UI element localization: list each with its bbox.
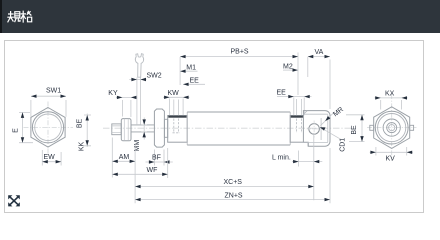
left view vertical centerline	[47, 102, 49, 155]
VA left extension line	[307, 57, 309, 77]
dimension KX	[375, 90, 408, 109]
dimension BE right	[346, 115, 365, 142]
expand icon	[10, 197, 18, 204]
rod wrench flat lines	[137, 78, 141, 125]
flange neck	[164, 119, 167, 137]
clevis top-left chamfer	[303, 111, 307, 115]
dimension AM	[112, 138, 135, 204]
label M1 with leader	[180, 65, 197, 73]
rear port hidden lines	[297, 119, 302, 134]
cylinder tube	[187, 112, 290, 145]
right hex outline	[374, 107, 410, 149]
dimension KW	[163, 90, 189, 99]
left view horizontal centerline	[24, 126, 74, 128]
svg-text:KV: KV	[386, 155, 396, 162]
head cap hatch band	[168, 116, 186, 118]
right pivot ear	[410, 125, 414, 130]
piston rod	[131, 125, 154, 132]
left pivot ear	[370, 125, 374, 130]
hex nut outline (left view)	[31, 108, 65, 148]
svg-text:EE: EE	[277, 90, 287, 97]
header left edge strip	[0, 0, 2, 33]
panel border box	[4, 40, 424, 213]
dimension KY	[108, 90, 137, 117]
dimension BE (left column)	[77, 114, 92, 148]
dimension BF	[146, 150, 173, 166]
piston rod thread stub	[112, 124, 121, 135]
right view vertical centerline	[391, 94, 393, 161]
rear port centre extension line	[297, 53, 299, 96]
header title 规格 (drawn strokes)	[7, 11, 31, 23]
svg-text:M2: M2	[283, 64, 293, 71]
label M2 with leader	[283, 64, 298, 72]
svg-text:BE: BE	[77, 119, 84, 129]
dimension WF	[112, 148, 167, 178]
head port hidden lines	[173, 119, 181, 134]
rod cover flange disc	[154, 109, 164, 147]
header bar	[0, 0, 440, 33]
dimension KV	[370, 147, 413, 162]
label MR with leader	[320, 106, 345, 126]
label CD1 with leader	[320, 127, 347, 152]
dimension SW2	[129, 73, 161, 82]
wrench icon	[135, 54, 143, 77]
svg-text:KW: KW	[168, 90, 180, 97]
svg-text:PB+S: PB+S	[231, 49, 249, 56]
rear cap hatch band	[291, 116, 303, 118]
dimension E	[13, 112, 34, 142]
dimension XC+S	[135, 179, 314, 188]
svg-text:ZN+S: ZN+S	[225, 192, 243, 199]
svg-text:KY: KY	[108, 90, 118, 97]
clevis bottom step	[307, 142, 309, 146]
rear port extension lines	[294, 98, 304, 116]
svg-text:EE: EE	[190, 78, 200, 85]
dimension SW1	[31, 88, 66, 117]
dimension VA	[308, 49, 330, 109]
concentric circles right view	[375, 111, 408, 144]
rear clevis block	[303, 111, 330, 147]
head cover cap	[168, 116, 188, 143]
outer circle (left view)	[32, 112, 63, 143]
svg-text:KK: KK	[79, 142, 86, 152]
svg-text:L min.: L min.	[272, 154, 291, 161]
PB left extension line	[179, 57, 181, 85]
inner circle thread (left view)	[35, 114, 62, 141]
svg-text:AM: AM	[119, 154, 130, 161]
main horizontal centerline	[103, 127, 352, 129]
svg-text:SW1: SW1	[46, 88, 61, 95]
clevis pivot hole	[309, 124, 320, 135]
svg-text:XC+S: XC+S	[224, 179, 243, 186]
dimension EW	[42, 150, 61, 166]
rod nut	[121, 119, 131, 141]
clevis pivot centerline	[307, 121, 322, 138]
dimension L min.	[272, 133, 322, 200]
rear cover cap	[290, 116, 303, 143]
nut facet lines	[124, 119, 128, 141]
svg-text:M1: M1	[186, 65, 196, 72]
svg-text:WF: WF	[147, 167, 158, 174]
dimension PB+S	[180, 49, 298, 59]
svg-text:SW2: SW2	[147, 73, 162, 80]
tube end verticals	[187, 112, 290, 145]
svg-text:BF: BF	[152, 155, 161, 162]
svg-text:VA: VA	[315, 49, 324, 56]
clevis fork inner line	[320, 118, 322, 140]
head port extension lines	[170, 99, 184, 116]
dimension ZN+S	[135, 148, 330, 203]
clevis chamfer ring lines	[303, 114, 327, 142]
svg-text:EW: EW	[44, 154, 56, 161]
dimension EE rear	[277, 90, 312, 99]
svg-text:BE: BE	[351, 125, 358, 135]
svg-text:CD1: CD1	[340, 138, 347, 152]
label EE head with leader	[183, 78, 205, 87]
svg-text:MR: MR	[332, 106, 345, 118]
svg-text:E: E	[13, 128, 20, 133]
dimension MM	[134, 118, 147, 152]
svg-text:KX: KX	[385, 90, 395, 97]
right view horizontal centerline	[367, 127, 417, 129]
